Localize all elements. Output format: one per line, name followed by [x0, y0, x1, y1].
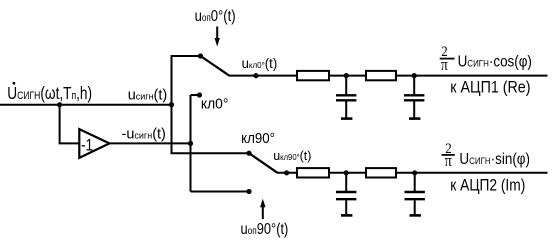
- svg-text:к АЦП2 (Im): к АЦП2 (Im): [450, 176, 525, 195]
- node: кл90 pivot: [246, 151, 251, 156]
- capacitor C2: [404, 76, 424, 118]
- svg-text:к АЦП1 (Re): к АЦП1 (Re): [450, 79, 530, 97]
- wire: vertical bus uсигн: [171, 56, 173, 153]
- node: RC junction top 1: [344, 73, 349, 78]
- node: uсигн junction at bus: [169, 102, 174, 107]
- ground (C4): [410, 214, 421, 217]
- node: uкл90 output node: [284, 170, 289, 175]
- label: gain fraction 2/π (output 1): [440, 43, 455, 74]
- node: кл0 lower contact: [197, 92, 202, 97]
- capacitor C1: [336, 76, 356, 118]
- svg-text:π: π: [445, 152, 452, 170]
- wire: stub to кл90 lower contact: [191, 191, 250, 193]
- arrow: uоп0 control (down): [215, 27, 220, 47]
- wire: elbow to кл90 pivot: [171, 152, 250, 154]
- svg-text:кл0°: кл0°: [201, 96, 229, 112]
- ground (C1): [341, 117, 352, 120]
- capacitor C4: [405, 173, 425, 215]
- svg-text:uоп0°(t): uоп0°(t): [195, 8, 236, 26]
- node: RC junction bottom 1: [344, 170, 349, 175]
- wire: branch down to inverter input: [60, 105, 79, 144]
- label: gain fraction 2/π (output 2): [442, 140, 455, 171]
- ground (C3): [341, 214, 352, 217]
- switch кл0 arm: [201, 56, 230, 76]
- svg-text:-1: -1: [81, 136, 93, 155]
- resistor R3: [297, 168, 329, 177]
- op-amp inverter U1: [79, 129, 109, 158]
- svg-text:π: π: [441, 57, 448, 75]
- wire: input signal line: [0, 104, 172, 106]
- wire: elbow to кл0 pivot: [171, 55, 201, 57]
- ground (C2): [409, 117, 420, 120]
- wire: top rail to АЦП1: [229, 75, 548, 77]
- node: -uсигн junction at bus: [188, 141, 193, 146]
- resistor R2: [366, 71, 396, 80]
- node: RC junction top 2: [412, 73, 417, 78]
- switch кл90 arm: [249, 153, 278, 173]
- resistor R4: [366, 168, 396, 177]
- wire: vertical bus -uсигн: [190, 95, 192, 192]
- node: RC junction bottom 2: [412, 170, 417, 175]
- arrow: uоп90 control (up): [260, 199, 265, 219]
- wire: stub to кл0 lower contact: [191, 94, 200, 96]
- resistor R1: [297, 71, 329, 80]
- capacitor C3: [336, 173, 356, 215]
- label: input signal U̇сигн(ωt,Tп,h): [7, 82, 92, 104]
- node: кл0 pivot: [198, 53, 203, 58]
- wire: bottom rail to АЦП2: [277, 172, 548, 174]
- node: кл90 lower contact: [246, 189, 251, 194]
- wire: inverter output -uсигн(t): [109, 142, 191, 144]
- svg-text:кл90°: кл90°: [241, 129, 275, 146]
- node: input junction to inverter: [57, 102, 62, 107]
- node: uкл0 output node: [253, 73, 258, 78]
